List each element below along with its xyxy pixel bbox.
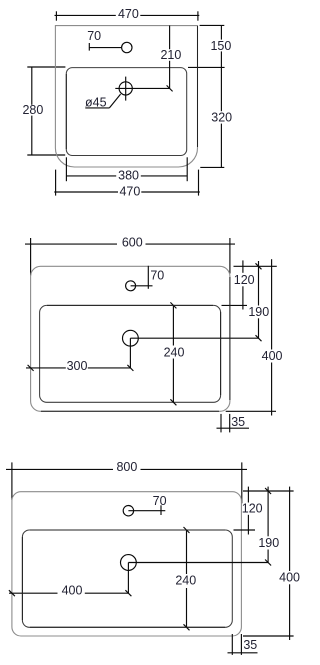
svg-text:70: 70 bbox=[87, 29, 101, 43]
svg-text:380: 380 bbox=[118, 169, 139, 183]
overflow hole 3 + dim 70 bbox=[123, 494, 166, 516]
tap hole 3 bbox=[120, 555, 268, 594]
svg-text:120: 120 bbox=[242, 501, 263, 515]
svg-text:240: 240 bbox=[175, 574, 196, 588]
svg-text:320: 320 bbox=[211, 111, 232, 125]
inner basin 2 bbox=[40, 305, 221, 402]
dim 210 bbox=[160, 26, 181, 92]
svg-text:190: 190 bbox=[258, 536, 279, 550]
svg-text:470: 470 bbox=[119, 185, 140, 199]
svg-text:190: 190 bbox=[248, 305, 269, 319]
svg-text:240: 240 bbox=[164, 345, 185, 359]
svg-text:600: 600 bbox=[122, 235, 143, 249]
svg-text:35: 35 bbox=[231, 415, 245, 429]
inner basin 1 bbox=[66, 68, 186, 156]
tap hole 1 bbox=[115, 77, 169, 101]
svg-text:35: 35 bbox=[243, 638, 257, 652]
overflow hole 2 + dim 70 bbox=[126, 266, 165, 291]
dim 240 bottom bbox=[175, 527, 196, 630]
dim 300 bbox=[26, 359, 133, 373]
dim 35 middle bbox=[217, 414, 250, 433]
overflow hole 1 bbox=[122, 42, 132, 52]
dim 120 bottom bbox=[234, 487, 294, 535]
dim 150 bbox=[188, 25, 231, 67]
svg-text:300: 300 bbox=[67, 359, 88, 373]
svg-text:70: 70 bbox=[150, 268, 164, 282]
svg-text:70: 70 bbox=[153, 494, 167, 508]
svg-text:400: 400 bbox=[262, 349, 283, 363]
svg-text:150: 150 bbox=[210, 39, 231, 53]
label dia45 bbox=[85, 94, 121, 110]
inner basin 3 bbox=[22, 530, 232, 627]
dim 190 bottom bbox=[258, 487, 279, 566]
dim 400 inside bbox=[9, 584, 131, 598]
outer rim 1 bbox=[55, 26, 197, 167]
dim 240 middle bbox=[164, 302, 185, 405]
dim 470 top line bbox=[55, 7, 200, 21]
outer rim 2 bbox=[31, 266, 230, 411]
svg-text:120: 120 bbox=[234, 273, 255, 287]
svg-text:800: 800 bbox=[116, 460, 137, 474]
dim 380 bbox=[66, 157, 187, 182]
dim 400 right bbox=[243, 487, 300, 640]
dim 320 bbox=[200, 67, 232, 167]
dim 120 middle bbox=[222, 260, 277, 309]
svg-text:210: 210 bbox=[160, 48, 181, 62]
dim 70 bbox=[87, 29, 121, 51]
svg-text:400: 400 bbox=[279, 571, 300, 585]
dim 190 middle bbox=[248, 261, 269, 341]
dim 35 bottom bbox=[228, 634, 258, 655]
dim 800 bbox=[6, 460, 247, 503]
tap hole 2 bbox=[122, 330, 258, 368]
svg-text:470: 470 bbox=[118, 7, 139, 21]
dim 600 bbox=[25, 235, 235, 275]
darker edge segments bbox=[22, 26, 230, 627]
dim 400 middle bbox=[226, 259, 283, 415]
outer rim 3 bbox=[12, 492, 242, 636]
svg-text:280: 280 bbox=[22, 103, 43, 117]
dim 280 bbox=[22, 67, 65, 155]
dim 470 bottom bbox=[54, 170, 200, 199]
svg-text:400: 400 bbox=[62, 584, 83, 598]
